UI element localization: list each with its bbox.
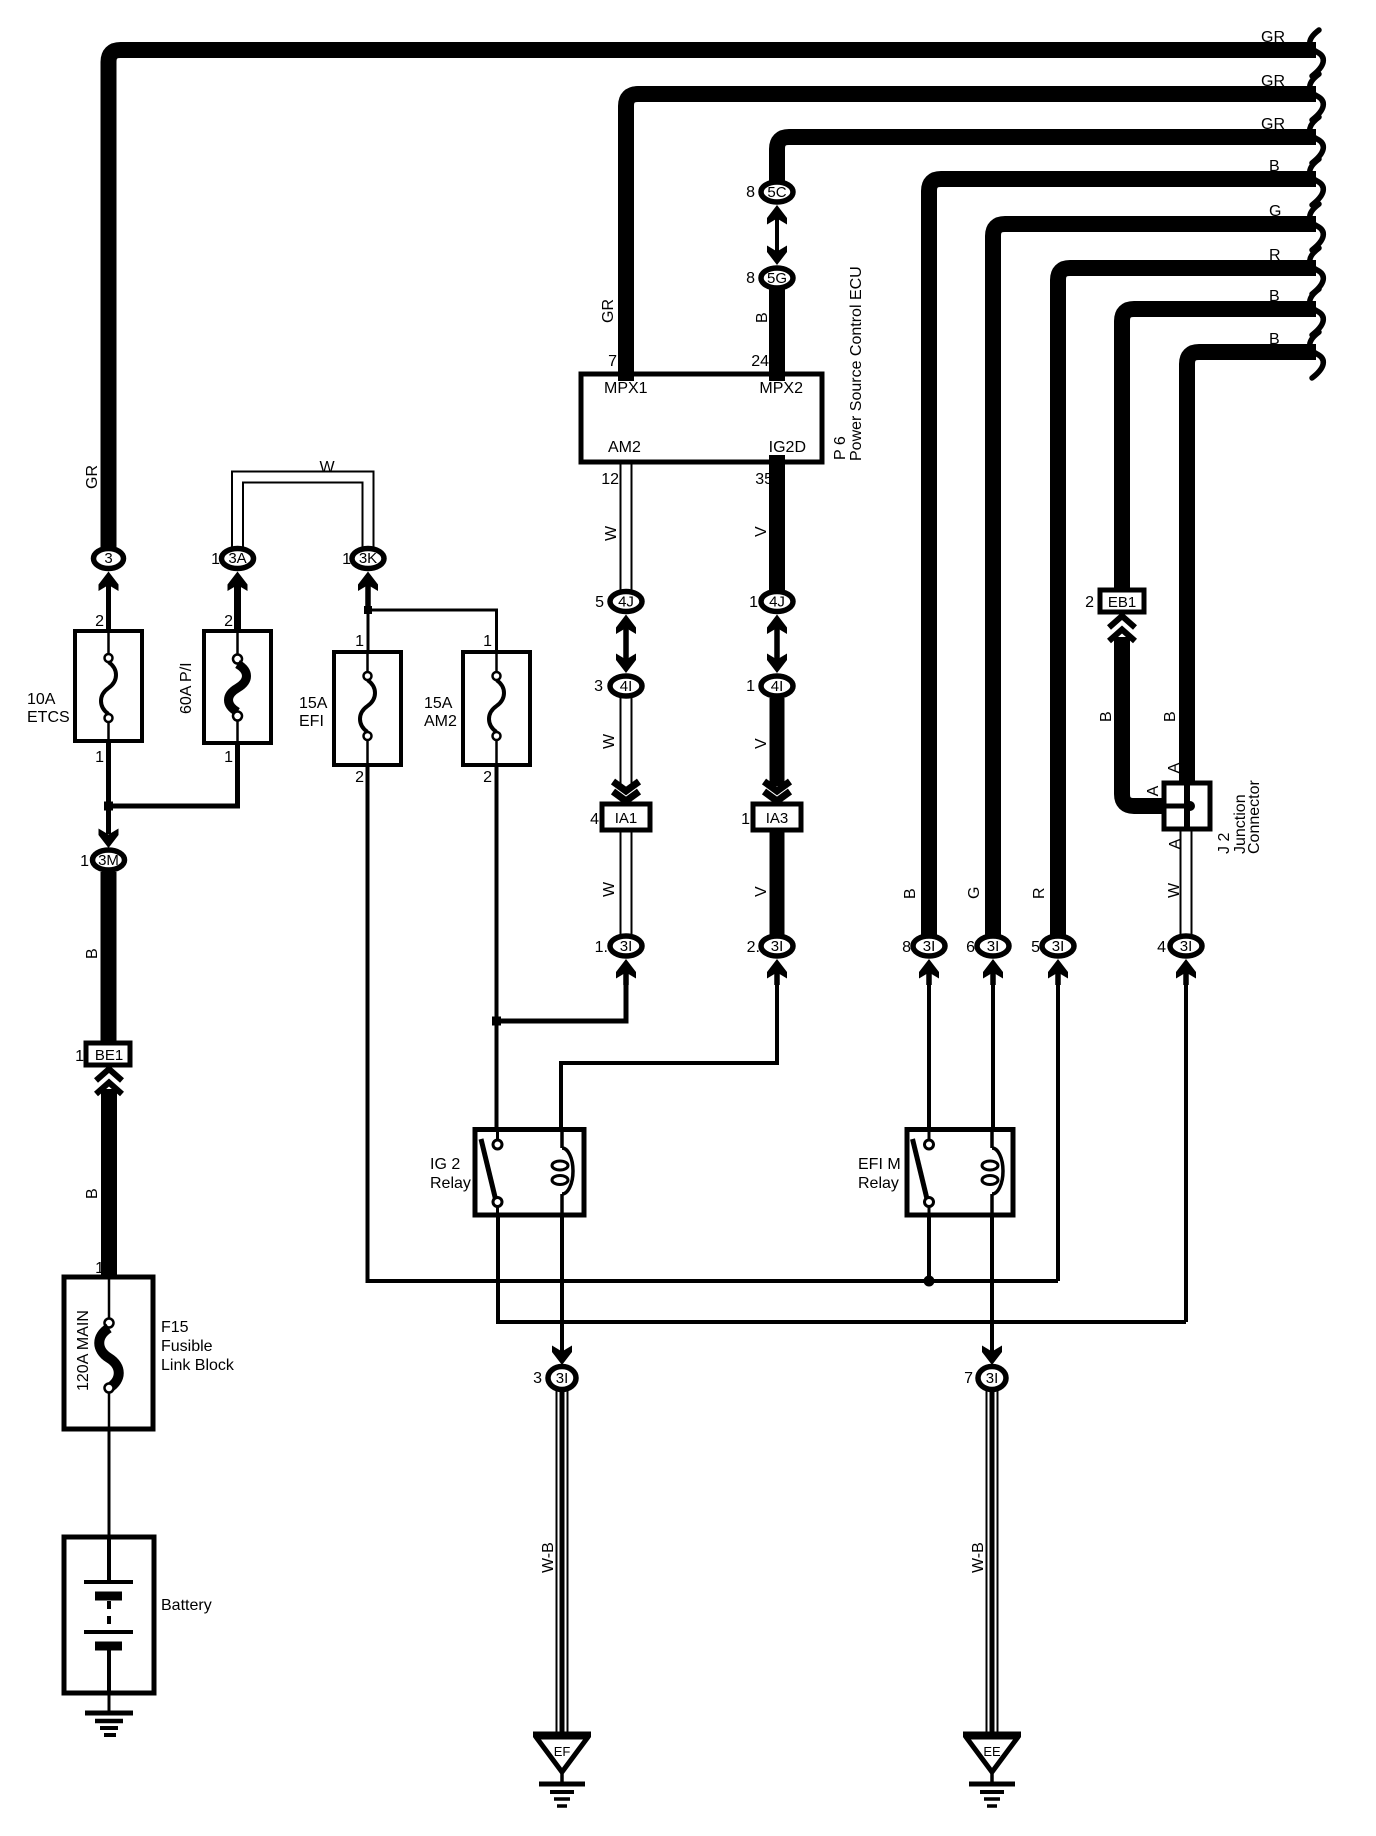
- connector 6-3I oval: [977, 936, 1009, 956]
- svg-text:IG 2: IG 2: [430, 1156, 460, 1173]
- svg-text:EFI: EFI: [299, 713, 324, 730]
- svg-text:Relay: Relay: [858, 1175, 899, 1192]
- svg-text:AM2: AM2: [608, 439, 641, 456]
- connector 3-3I oval: [548, 1367, 576, 1390]
- svg-text:Battery: Battery: [161, 1597, 212, 1614]
- wire W loop from 3A up over to 3K (outlined wire): [232, 472, 374, 549]
- wire branch to 60A P/I pin1: [109, 743, 238, 806]
- relay EFI M box: [907, 1129, 1013, 1215]
- svg-text:V: V: [753, 886, 770, 897]
- wire from 2-3I down over to IG2 relay coil: [561, 975, 777, 1127]
- svg-text:P 6: P 6: [832, 436, 849, 460]
- wire GR battery main: up from connector 3 over the top to right edge: [109, 50, 1317, 548]
- svg-text:5: 5: [595, 594, 604, 611]
- connector 7-3I oval: [978, 1367, 1006, 1390]
- svg-text:4: 4: [590, 811, 599, 828]
- svg-text:GR: GR: [1261, 73, 1285, 90]
- wire from 5-3I down to EFI feed rail: [1056, 975, 1060, 1281]
- junction connector J2 box: [1164, 783, 1210, 829]
- wire branch from junction to fuse 15A AM2 pin1: [368, 610, 497, 652]
- svg-text:10A: 10A: [27, 691, 56, 708]
- svg-text:3I: 3I: [986, 1370, 999, 1387]
- wire continuation squiggle 8: [1310, 332, 1324, 378]
- arrow below connector 3K: [358, 572, 378, 592]
- svg-text:1: 1: [741, 811, 750, 828]
- svg-text:15A: 15A: [299, 695, 328, 712]
- wire V thick from ECU IG2D pin35 to 4J right: [769, 455, 785, 590]
- svg-text:3A: 3A: [228, 550, 246, 567]
- svg-text:3: 3: [104, 550, 112, 567]
- svg-text:Fusible: Fusible: [161, 1338, 213, 1355]
- arrow below connector 3: [99, 572, 119, 592]
- svg-text:W: W: [601, 733, 618, 749]
- connector 5G oval: [761, 268, 793, 288]
- wire shaft between 4J and 4I left: [623, 628, 629, 660]
- wire thin from connector 3 to fuse ETCS pin2: [106, 585, 111, 631]
- svg-text:2: 2: [483, 769, 492, 786]
- svg-text:W: W: [603, 525, 620, 541]
- svg-text:4I: 4I: [620, 678, 633, 695]
- svg-text:GR: GR: [600, 299, 617, 323]
- svg-text:ETCS: ETCS: [27, 709, 70, 726]
- connector 4J left oval: [610, 592, 642, 612]
- svg-text:5: 5: [1031, 939, 1040, 956]
- wire continuation squiggle 2: [1310, 74, 1324, 120]
- fuse 60A P/I box: [204, 631, 271, 743]
- svg-text:EFI M: EFI M: [858, 1156, 901, 1173]
- svg-text:7: 7: [608, 353, 617, 370]
- connector 4J right oval: [761, 592, 793, 612]
- wire B thick from 3M to BE1: [101, 872, 117, 1042]
- svg-text:1: 1: [746, 678, 755, 695]
- connector IA1 box: [602, 804, 650, 830]
- arrow into 4-3I: [1176, 959, 1196, 979]
- svg-text:V: V: [753, 738, 770, 749]
- svg-text:6: 6: [966, 939, 975, 956]
- wire GR from ECU MPX1 pin7 to right edge: [626, 94, 1316, 381]
- wire B from 5G down to ECU MPX2 pin24: [769, 289, 785, 381]
- svg-text:120A MAIN: 120A MAIN: [75, 1310, 92, 1391]
- svg-text:5C: 5C: [767, 184, 786, 201]
- wire from 6-3I down to EFI M relay coil: [991, 975, 995, 1127]
- connector 4I right oval: [761, 676, 793, 696]
- wire shaft between 4J and 4I right: [774, 628, 780, 660]
- svg-text:F15: F15: [161, 1319, 189, 1336]
- svg-text:3: 3: [594, 678, 603, 695]
- wire from 1-3I down and left to AM2 feed junction: [497, 975, 627, 1021]
- svg-text:IA3: IA3: [766, 810, 789, 827]
- arrow pair 4J-4I left: [616, 615, 636, 635]
- svg-text:B: B: [1269, 331, 1280, 348]
- rotated wire color labels: [75, 299, 1183, 1573]
- svg-text:24: 24: [751, 353, 769, 370]
- svg-text:3I: 3I: [1180, 938, 1193, 955]
- svg-text:B: B: [1269, 288, 1280, 305]
- junction node below 3K: [364, 606, 372, 614]
- svg-text:Power Source Control ECU: Power Source Control ECU: [848, 266, 865, 461]
- svg-text:IA1: IA1: [615, 810, 638, 827]
- svg-text:W-B: W-B: [540, 1542, 557, 1573]
- ground below battery: [85, 1693, 133, 1735]
- svg-text:BE1: BE1: [95, 1047, 123, 1064]
- svg-text:1: 1: [355, 633, 364, 650]
- arrow into 3-3I: [552, 1346, 572, 1366]
- svg-text:G: G: [966, 887, 983, 899]
- svg-text:V: V: [753, 526, 770, 537]
- fusible link block F15 box 120A MAIN: [64, 1277, 153, 1429]
- svg-text:MPX1: MPX1: [604, 380, 648, 397]
- svg-text:5G: 5G: [767, 270, 787, 287]
- svg-text:B: B: [1098, 711, 1115, 722]
- arrow into 3M: [99, 829, 119, 849]
- svg-text:35: 35: [755, 471, 773, 488]
- svg-text:B: B: [902, 888, 919, 899]
- svg-text:3I: 3I: [923, 938, 936, 955]
- connector 1-3I oval: [610, 936, 642, 956]
- fuse 15A AM2 box: [463, 652, 530, 765]
- svg-text:8: 8: [746, 184, 755, 201]
- connector 5C oval: [761, 182, 793, 202]
- chevrons into IA1: [613, 782, 639, 792]
- svg-text:1: 1: [342, 551, 351, 568]
- svg-text:12: 12: [601, 471, 619, 488]
- svg-text:EB1: EB1: [1108, 594, 1136, 611]
- svg-text:1: 1: [749, 594, 758, 611]
- svg-text:15A: 15A: [424, 695, 453, 712]
- svg-text:2: 2: [224, 613, 233, 630]
- wire from junction down to 3M: [106, 806, 111, 834]
- svg-text:GR: GR: [84, 465, 101, 489]
- wire GR from connector 5C to right edge: [777, 137, 1316, 181]
- svg-text:W: W: [319, 459, 335, 476]
- junction node on rail: [924, 1276, 935, 1287]
- wire from 3K down to junction: [365, 585, 371, 614]
- wire from fuse 15A AM2 pin2 down to IG2 relay switch: [495, 765, 499, 1127]
- wire continuation squiggle 1: [1310, 30, 1324, 76]
- wire W outlined from IA1 to 1-3I: [620, 830, 622, 935]
- svg-text:AM2: AM2: [424, 713, 457, 730]
- wire from 4-3I down to IG2 switch rail: [1184, 975, 1188, 1322]
- wire from fusible link to battery: [108, 1429, 111, 1537]
- svg-text:EE: EE: [983, 1744, 1001, 1759]
- svg-text:4: 4: [1157, 939, 1166, 956]
- svg-text:3I: 3I: [771, 938, 784, 955]
- svg-text:4J: 4J: [769, 594, 785, 611]
- svg-text:B: B: [84, 1188, 101, 1199]
- wire rail EFI fuse pin2 to 5-3I with EFI M switch tap: [368, 765, 1059, 1281]
- wire G from connector 6-3I to right edge: [993, 224, 1316, 935]
- svg-text:W-B: W-B: [970, 1542, 987, 1573]
- arrow into 6-3I: [983, 959, 1003, 979]
- wire from 8-3I down to EFI M relay switch: [927, 975, 931, 1127]
- svg-text:J 2: J 2: [1216, 833, 1233, 854]
- wire B thick from BE1 to fusible link block: [101, 1089, 117, 1277]
- connector BE1 box: [86, 1043, 130, 1065]
- svg-text:2: 2: [95, 613, 104, 630]
- wire V thick from 4I to IA3: [770, 698, 785, 786]
- chevrons into IA3: [764, 782, 790, 792]
- svg-text:1: 1: [80, 853, 89, 870]
- wire V thick from IA3 to 2-3I: [770, 830, 785, 935]
- junction node at fuse branch: [104, 802, 113, 811]
- wire rail IG2 switch to 4-3I: [498, 1216, 1186, 1322]
- wire EFI M relay switch down to rail: [927, 1216, 931, 1281]
- arrow into 5-3I: [1048, 959, 1068, 979]
- svg-text:8: 8: [902, 939, 911, 956]
- svg-text:3I: 3I: [556, 1370, 569, 1387]
- svg-text:4J: 4J: [618, 594, 634, 611]
- svg-text:Relay: Relay: [430, 1175, 471, 1192]
- connector 3M oval: [93, 850, 125, 870]
- wire from fuse ETCS pin1 down to junction: [106, 741, 111, 810]
- relay IG2 box: [475, 1129, 584, 1215]
- svg-text:1.: 1.: [595, 939, 608, 956]
- wire IG2 coil down to 3-3I: [560, 1216, 564, 1352]
- arrow into 1-3I: [616, 959, 636, 979]
- connector 3 oval: [94, 549, 124, 569]
- wire W outlined from ECU AM2 pin12 to 4J: [620, 462, 622, 590]
- fuse 10A ETCS box: [75, 631, 142, 741]
- svg-text:GR: GR: [1261, 29, 1285, 46]
- wire B from connector EB1 to right edge: [1122, 309, 1316, 589]
- svg-text:A: A: [1166, 762, 1183, 773]
- connector 2-3I oval: [761, 936, 793, 956]
- svg-text:4I: 4I: [771, 678, 784, 695]
- svg-text:1: 1: [95, 1260, 104, 1277]
- svg-text:B: B: [1269, 158, 1280, 175]
- svg-text:7: 7: [964, 1370, 973, 1387]
- svg-text:R: R: [1269, 247, 1281, 264]
- svg-text:3I: 3I: [987, 938, 1000, 955]
- svg-text:1: 1: [224, 749, 233, 766]
- battery box: [64, 1537, 154, 1693]
- svg-text:60A P/I: 60A P/I: [178, 662, 195, 714]
- wire continuation squiggle 4: [1310, 159, 1324, 205]
- wire continuation squiggle 7: [1310, 289, 1324, 335]
- wire W-B from 7-3I to ground EE: [986, 1390, 988, 1732]
- svg-text:2.: 2.: [747, 939, 760, 956]
- svg-text:1: 1: [95, 749, 104, 766]
- svg-text:3K: 3K: [359, 550, 377, 567]
- svg-text:2: 2: [1085, 594, 1094, 611]
- svg-text:G: G: [1269, 203, 1281, 220]
- wire continuation squiggle 6: [1310, 248, 1324, 294]
- wire B from connector 8-3I to right edge: [929, 179, 1316, 935]
- svg-text:1: 1: [483, 633, 492, 650]
- wire from 3A down to 60A P/I pin2: [234, 585, 241, 631]
- svg-text:MPX2: MPX2: [759, 380, 803, 397]
- wire continuation squiggle 5: [1310, 204, 1324, 250]
- svg-text:1: 1: [211, 551, 220, 568]
- svg-text:A: A: [1167, 838, 1184, 849]
- arrow into 8-3I: [919, 959, 939, 979]
- wire W outlined from J2 down to 4-3I: [1180, 829, 1182, 935]
- wire W outlined from 4I to IA1: [620, 698, 622, 788]
- ground EE: [963, 1735, 1021, 1807]
- svg-text:W: W: [601, 881, 618, 897]
- connector 8-3I oval: [913, 936, 945, 956]
- svg-text:8: 8: [746, 270, 755, 287]
- connector 3K oval: [352, 549, 384, 569]
- svg-text:3I: 3I: [1052, 938, 1065, 955]
- svg-text:2: 2: [355, 769, 364, 786]
- svg-text:3: 3: [533, 1370, 542, 1387]
- svg-text:R: R: [1031, 887, 1048, 899]
- connector 4I left oval: [610, 676, 642, 696]
- svg-text:IG2D: IG2D: [769, 439, 806, 456]
- fuse 15A EFI box: [334, 652, 401, 765]
- svg-text:B: B: [1162, 711, 1179, 722]
- ground EF: [533, 1735, 591, 1807]
- arrow pair 4J-4I right: [767, 615, 787, 635]
- svg-text:3M: 3M: [98, 852, 119, 869]
- svg-text:EF: EF: [554, 1744, 571, 1759]
- svg-text:GR: GR: [1261, 116, 1285, 133]
- connector 3A oval: [222, 549, 254, 569]
- arrow pair 5C-5G: [767, 205, 787, 225]
- wire R from connector 5-3I to right edge: [1058, 268, 1316, 935]
- wire continuation squiggle 3: [1310, 117, 1324, 163]
- arrow into 7-3I: [982, 1346, 1002, 1366]
- connector 5-3I oval: [1042, 936, 1074, 956]
- svg-text:B: B: [84, 948, 101, 959]
- svg-text:A: A: [1145, 785, 1162, 796]
- ECU box P6 Power Source Control ECU: [581, 374, 822, 462]
- wire EFI M coil down to 7-3I: [990, 1216, 994, 1352]
- connector 4-3I oval: [1170, 936, 1202, 956]
- chevrons into BE1: [96, 1069, 122, 1081]
- svg-text:Connector: Connector: [1246, 780, 1263, 854]
- connector IA3 box: [753, 804, 801, 830]
- arrow below connector 3A: [228, 572, 248, 592]
- svg-text:3I: 3I: [620, 938, 633, 955]
- svg-text:1: 1: [75, 1048, 84, 1065]
- arrow into 2-3I: [767, 959, 787, 979]
- wire W-B from 3-3I to ground EF: [556, 1390, 558, 1732]
- wire B from junction connector J2 to right edge: [1187, 352, 1316, 783]
- svg-text:Link Block: Link Block: [161, 1357, 235, 1374]
- chevrons into EB1: [1109, 616, 1135, 628]
- connector EB1 box: [1100, 590, 1144, 612]
- junction node AM2/1-3I: [492, 1017, 501, 1026]
- wire thick from EB1 down around to J2: [1122, 637, 1166, 806]
- svg-text:W: W: [1166, 882, 1183, 898]
- svg-text:B: B: [754, 312, 771, 323]
- wire from junction down to fuse 15A EFI pin1: [367, 610, 370, 652]
